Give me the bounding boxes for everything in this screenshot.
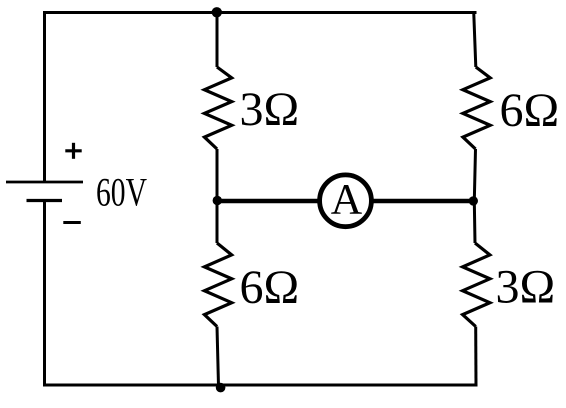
resistor R3 6ohm lower middle bbox=[204, 243, 231, 327]
svg-text:60V: 60V bbox=[96, 170, 147, 215]
wire ammeter bridge horizontal bbox=[217, 199, 474, 204]
ammeter letter A bbox=[331, 176, 363, 224]
node mid-left junction dot bbox=[213, 196, 222, 205]
battery value 60V bbox=[96, 170, 147, 215]
battery minus sign bbox=[63, 221, 81, 224]
label 3ohm upper middle bbox=[240, 83, 300, 136]
resistor R1 3ohm upper middle bbox=[204, 67, 231, 149]
node top junction dot bbox=[212, 7, 222, 17]
wire right vertical mid segment bbox=[474, 149, 475, 243]
wire left vertical upper bbox=[43, 11, 46, 182]
battery plus sign bbox=[65, 143, 81, 159]
wire middle branch upper stub bbox=[216, 11, 219, 67]
wire right vertical upper stub bbox=[474, 11, 476, 67]
wire bottom horizontal bbox=[43, 384, 477, 387]
svg-text:6Ω: 6Ω bbox=[240, 261, 300, 314]
label 6ohm lower middle bbox=[240, 261, 300, 314]
battery V1 bbox=[6, 182, 83, 201]
ammeter A1 circle bbox=[320, 175, 372, 227]
svg-text:6Ω: 6Ω bbox=[500, 84, 560, 137]
resistor R4 3ohm lower right bbox=[463, 243, 490, 327]
node mid-right junction dot bbox=[469, 196, 478, 205]
wire middle branch mid segment bbox=[216, 149, 219, 243]
label 3ohm lower right bbox=[496, 261, 556, 314]
wire right vertical lower stub bbox=[474, 327, 477, 387]
wire top horizontal bbox=[43, 11, 477, 14]
wire middle branch lower stub bbox=[217, 327, 219, 387]
wire left vertical lower bbox=[43, 201, 46, 387]
svg-text:A: A bbox=[331, 176, 363, 224]
svg-text:3Ω: 3Ω bbox=[240, 83, 300, 136]
node bottom junction dot bbox=[216, 383, 226, 393]
svg-text:3Ω: 3Ω bbox=[496, 261, 556, 314]
resistor R2 6ohm upper right bbox=[463, 67, 490, 149]
label 6ohm upper right bbox=[500, 84, 560, 137]
